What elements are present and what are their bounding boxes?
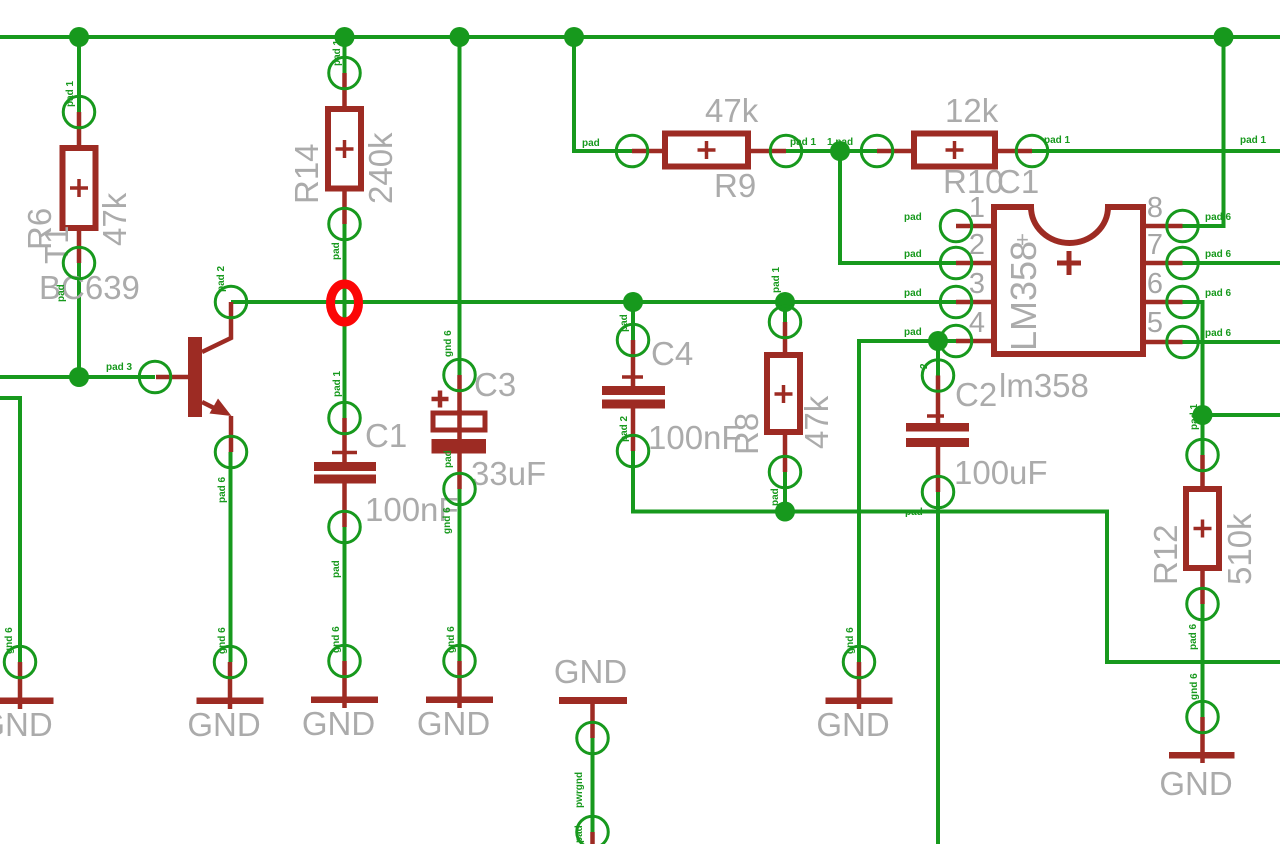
transistor T1 emitter lead down (229, 416, 234, 452)
ground GND5 bar (559, 697, 627, 704)
capacitor C1 plates (314, 462, 376, 471)
pad GND4 (444, 645, 476, 677)
svg-text:pad 1: pad 1 (332, 370, 343, 397)
pad C4 top (617, 324, 649, 356)
pad R9 right (770, 135, 802, 167)
svg-text:12k: 12k (945, 92, 999, 129)
capacitor C3 plus (432, 391, 449, 408)
junction T1 base node (69, 367, 89, 387)
svg-text:R9: R9 (714, 167, 756, 204)
svg-text:pad 6: pad 6 (217, 476, 228, 503)
op-amp IC1 LM358 body with notch (994, 207, 1143, 354)
wire C3 column from rail down to C3 top pad (458, 37, 462, 375)
resistor R8 stubs (783, 322, 788, 355)
pad T1 base (139, 361, 171, 393)
junction rail x459 (450, 27, 470, 47)
capacitor C1 stem bottom (342, 484, 347, 528)
svg-text:C3: C3 (474, 366, 516, 403)
svg-text:8: 8 (1147, 192, 1163, 224)
wire C1 bottom pad down to GND3 (343, 527, 347, 661)
svg-text:GND: GND (417, 705, 490, 742)
ground GND7 bar (1169, 752, 1235, 759)
ground (857, 662, 862, 709)
transistor T1 BC639 (188, 337, 202, 417)
pad GND2 (214, 646, 246, 678)
wire right riser: rail junction x1223.5 down to IC1 pin8 (1183, 37, 1224, 226)
wire IC1 pin5 to right edge y=342 (1183, 340, 1280, 344)
pad GND7 (1187, 701, 1219, 733)
wire T1 emitter pad down to GND2 (229, 452, 233, 662)
wire IC1 pin4 left then down to GND6 (859, 341, 956, 662)
svg-text:pad: pad (582, 138, 600, 149)
pad IC1 pin1 (940, 210, 972, 242)
svg-text:100nF: 100nF (648, 419, 742, 456)
pad IC1 pin8 (1167, 210, 1199, 242)
ground (228, 662, 233, 709)
junction C4 tap on pin3 net (623, 292, 643, 312)
ground (342, 661, 347, 708)
junction rail x79 (69, 27, 89, 47)
wire C3 bottom pad down to GND4 (458, 489, 462, 661)
capacitor C3 top plate (hollow) (433, 413, 485, 430)
svg-text:pad 1: pad 1 (1240, 135, 1267, 146)
svg-text:pad: pad (574, 825, 585, 843)
svg-text:gnd 6: gnd 6 (845, 627, 856, 654)
op-amp IC1 pin stubs left (956, 224, 994, 229)
svg-text:7: 7 (1147, 229, 1163, 261)
svg-text:GND: GND (816, 706, 889, 743)
pad R8 bottom (769, 456, 801, 488)
svg-text:pad 1: pad 1 (1189, 403, 1200, 430)
transistor T1 emitter lead (202, 402, 218, 410)
pad IC1 pin7 (1167, 247, 1199, 279)
pad GND5 upper (577, 722, 609, 754)
wire inverting input riser: junction y151 down to IC1 pin2 (840, 151, 956, 263)
pad R8 top (769, 306, 801, 338)
junction R9/R10 node (830, 141, 850, 161)
svg-text:2: 2 (919, 363, 930, 369)
capacitor C4 plates (602, 386, 665, 395)
svg-text:gnd 6: gnd 6 (446, 626, 457, 653)
wire IC1 pin7 output to right edge y=263 (1183, 261, 1280, 265)
svg-text:pad 2: pad 2 (216, 265, 227, 292)
svg-text:pad 6: pad 6 (1188, 623, 1199, 650)
op-amp IC1 pin stubs right (1143, 224, 1183, 229)
svg-text:pad: pad (770, 488, 781, 506)
wire rail junction x574 down and right to R9 left pad (574, 37, 632, 151)
svg-text:pad 1: pad 1 (332, 39, 343, 66)
resistor R14 stubs (342, 73, 347, 109)
wire R6 bottom pad down to base junction (77, 263, 81, 377)
capacitor C4 tick (622, 375, 643, 379)
svg-text:pad: pad (904, 212, 922, 223)
resistor R8 (767, 355, 800, 432)
pad IC1 pin6 (1167, 286, 1199, 318)
capacitor C3 bottom plate (432, 439, 487, 454)
pad GND1 (4, 646, 36, 678)
svg-text:C2: C2 (955, 376, 997, 413)
svg-text:47k: 47k (705, 92, 759, 129)
junction R8 tap on pin3 net (775, 292, 795, 312)
svg-text:pad: pad (904, 327, 922, 338)
pad R10 right (1016, 135, 1048, 167)
resistor R10 (914, 134, 995, 167)
svg-text:510k: 510k (1221, 513, 1258, 585)
resistor R12 (1186, 489, 1219, 568)
wire GND5 pad down to lower pad off bottom (591, 738, 595, 832)
capacitor C1 tick (332, 451, 357, 455)
wire left input to T1 base pad (0, 375, 155, 379)
svg-text:47k: 47k (798, 395, 835, 449)
junction R12 node y=415 (1193, 405, 1213, 425)
svg-text:5: 5 (1147, 307, 1163, 339)
wire C4 top junction to C4 pad (631, 302, 635, 340)
ground GND5 lower stub off bottom edge (590, 832, 595, 844)
ground (18, 662, 23, 709)
wire C2 bottom pad down across feedback wire to bottom edge (936, 492, 940, 844)
svg-text:GND: GND (1159, 765, 1232, 802)
junction rail x1223 (1214, 27, 1234, 47)
transistor T1 base stub (156, 375, 188, 380)
pad T1 emitter (215, 436, 247, 468)
pad R12 bottom (1187, 588, 1219, 620)
capacitor C3 stem bottom (457, 454, 462, 490)
pad T1 collector (215, 286, 247, 318)
svg-text:gnd 6: gnd 6 (442, 507, 453, 534)
wire R14 branch from rail to top pad (343, 37, 347, 73)
junction C2 tap on pin4 net (928, 331, 948, 351)
pad C4 bottom (617, 435, 649, 467)
ground (457, 661, 462, 708)
svg-text:lm358: lm358 (999, 367, 1089, 404)
svg-text:gnd 6: gnd 6 (217, 627, 228, 654)
pad GND6 (843, 646, 875, 678)
capacitor C3 stem (457, 375, 462, 439)
svg-text:GND: GND (0, 706, 53, 743)
capacitor C2 stem top (936, 376, 941, 424)
wire top V+ rail y=37 (0, 35, 1280, 39)
svg-text:R14: R14 (288, 143, 325, 204)
svg-text:6: 6 (1147, 268, 1163, 300)
pad C3 bottom (444, 473, 476, 505)
svg-text:C1: C1 (365, 417, 407, 454)
svg-text:pad: pad (904, 249, 922, 260)
pad C2 bottom (922, 476, 954, 508)
wire base net: T1 collector pad to IC1 pin3 y=302 (231, 300, 956, 304)
resistor R10 stubs (877, 149, 914, 154)
ground GND7 pad-stem (1200, 717, 1205, 763)
svg-text:pad: pad (443, 450, 454, 468)
capacitor C1 stem top (342, 418, 347, 462)
wire C4 bottom pad down, feedback run right to x1107, down, right to edge y=662 (633, 451, 1280, 662)
pad R9 left (616, 135, 648, 167)
svg-text:pad 6: pad 6 (1205, 328, 1232, 339)
pad R6 bottom (63, 247, 95, 279)
svg-text:1 pad: 1 pad (827, 137, 853, 148)
svg-text:R12: R12 (1147, 524, 1184, 585)
svg-text:pad 6: pad 6 (1205, 288, 1232, 299)
transistor T1 collector lead (202, 302, 231, 352)
svg-text:pad 1: pad 1 (65, 80, 76, 107)
svg-text:GND: GND (554, 653, 627, 690)
svg-text:100uF: 100uF (954, 454, 1048, 491)
wire R12 bottom pad down to GND7 pad (1201, 604, 1205, 717)
capacitor C2 stem bottom (936, 447, 941, 492)
svg-text:33uF: 33uF (471, 455, 546, 492)
svg-text:pad 2: pad 2 (619, 415, 630, 442)
pad GND3 (329, 645, 361, 677)
svg-text:pad: pad (331, 242, 342, 260)
pad R14 top (329, 57, 361, 89)
svg-text:pad 6: pad 6 (1205, 212, 1232, 223)
svg-text:pad: pad (904, 288, 922, 299)
junction R8 on feedback wire (775, 502, 795, 522)
svg-text:pad 1: pad 1 (771, 266, 782, 293)
capacitor C2 plates (906, 423, 969, 432)
pad C2 top (922, 360, 954, 392)
transistor T1 emitter arrow (210, 399, 232, 417)
wire IC1 pin6 right then down to R12 top pad (1183, 302, 1203, 455)
wire R8 bottom pad to feedback wire junction (783, 472, 787, 512)
capacitor C2 tick (927, 414, 944, 418)
pad GND5 lower (577, 816, 609, 844)
svg-text:pwrgnd: pwrgnd (574, 772, 585, 808)
svg-text:pad 1: pad 1 (790, 137, 817, 148)
svg-text:+: + (1016, 227, 1029, 252)
resistor R14 (328, 109, 361, 189)
svg-text:pad 3: pad 3 (106, 362, 133, 373)
svg-text:GND: GND (187, 706, 260, 743)
highlight ellipse on unconnected crossing (331, 284, 359, 322)
wire left lower input L-shape to GND1 (0, 398, 20, 662)
resistor R6 (63, 148, 96, 228)
resistor R12 stubs (1200, 455, 1205, 489)
op-amp IC1 origin cross (1057, 251, 1081, 275)
svg-text:gnd 6: gnd 6 (443, 330, 454, 357)
svg-text:gnd 6: gnd 6 (4, 627, 15, 654)
svg-text:240k: 240k (362, 132, 399, 204)
svg-text:pad 1: pad 1 (1044, 135, 1071, 146)
wire R9 right pad to R10 left pad through junction (786, 149, 877, 153)
pad C3 top (444, 359, 476, 391)
pad C1 top (329, 402, 361, 434)
svg-text:T1: T1 (38, 225, 75, 264)
pad R14 bottom (329, 208, 361, 240)
capacitor C4 stem bottom (631, 409, 636, 452)
svg-text:pad: pad (619, 314, 630, 332)
pad IC1 pin4 (940, 325, 972, 357)
svg-text:gnd 6: gnd 6 (1189, 673, 1200, 700)
junction rail x574 (564, 27, 584, 47)
junction rail x344 (335, 27, 355, 47)
wire junction above R12 to right edge y=415 (1203, 413, 1280, 417)
wire R6 branch: junction to R6 top pad (77, 37, 81, 112)
svg-text:pad: pad (331, 560, 342, 578)
resistor R9 stubs (632, 149, 665, 154)
resistor R9 (665, 134, 748, 167)
pad IC1 pin3 (940, 286, 972, 318)
pad C1 bottom (329, 511, 361, 543)
svg-text:pad: pad (905, 507, 923, 518)
svg-text:LM358: LM358 (1003, 241, 1044, 351)
pad R12 top (1187, 439, 1219, 471)
svg-text:GND: GND (302, 705, 375, 742)
svg-text:47k: 47k (96, 192, 133, 246)
wire R14 bottom pad down through highlighted crossing to C1 top pad (343, 224, 347, 418)
pad R10 left (861, 135, 893, 167)
wire C2 branch: junction on pin4 net down to C2 top pad (936, 341, 940, 376)
svg-text:C1: C1 (997, 163, 1039, 200)
pad R6 top (63, 96, 95, 128)
capacitor C4 stem top (631, 340, 636, 386)
pad IC1 pin2 (940, 247, 972, 279)
pad IC1 pin5 (1167, 326, 1199, 358)
resistor R6 stubs (77, 112, 82, 148)
ground GND5 stem down to pad (590, 704, 595, 738)
svg-text:pad: pad (56, 284, 67, 302)
svg-text:gnd 6: gnd 6 (331, 626, 342, 653)
svg-text:C4: C4 (651, 335, 693, 372)
wire R10 right pad to right edge y=151 (1032, 149, 1280, 153)
svg-text:pad 6: pad 6 (1205, 249, 1232, 260)
wire R8 top: junction y302 to R8 top pad (783, 302, 787, 322)
